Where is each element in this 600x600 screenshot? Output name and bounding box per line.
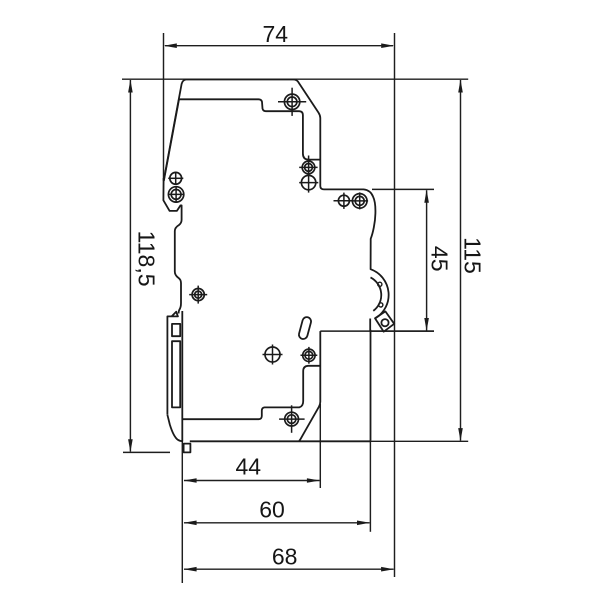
svg-text:115: 115	[460, 237, 486, 274]
svg-text:74: 74	[263, 21, 289, 47]
svg-text:44: 44	[236, 454, 262, 480]
svg-text:118,5: 118,5	[133, 231, 159, 287]
svg-text:45: 45	[427, 246, 453, 272]
svg-text:68: 68	[272, 544, 298, 570]
svg-text:60: 60	[259, 497, 285, 523]
